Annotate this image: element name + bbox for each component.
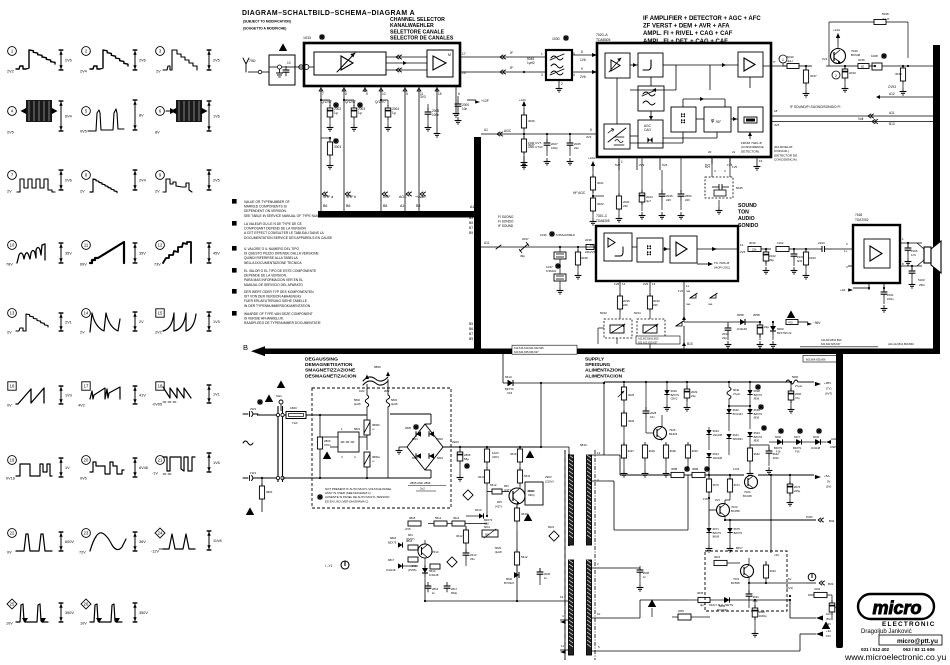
svg-text:3032: 3032 (749, 241, 756, 245)
svg-text:5800: 5800 (374, 365, 381, 369)
svg-text:1μ: 1μ (358, 111, 362, 115)
svg-text:IS VERSIE AFHANKELIJK.: IS VERSIE AFHANKELIJK. (244, 317, 284, 321)
waveform 24 test point (151, 528, 222, 553)
resistor 3036 82 (845, 58, 875, 69)
bus label 613,616,619 (512, 345, 577, 354)
svg-text:16: 16 (10, 384, 15, 389)
zener 6629 BZX79 C8V2 (664, 382, 680, 411)
warning triangle supply (648, 599, 672, 617)
svg-text:4V2: 4V2 (78, 404, 85, 408)
phase demod box (704, 107, 731, 132)
svg-text:IL VALORE O IL NUMERO DEL: IL VALORE O IL NUMERO DEL TIPO (244, 247, 299, 251)
svg-text:1: 1 (541, 52, 543, 56)
capacitor 2106 2n5 (905, 265, 915, 288)
waveform 21 test point (152, 453, 220, 476)
capacitor 2100 (791, 248, 804, 274)
svg-text:+12A: +12A (833, 28, 840, 32)
svg-text:24: 24 (158, 531, 163, 536)
svg-text:1008: 1008 (871, 54, 878, 58)
svg-text:2040: 2040 (849, 71, 856, 75)
svg-text:DEGAUSSING: DEGAUSSING (305, 357, 338, 363)
notes text block (multi-language) (232, 199, 333, 325)
svg-text:3102: 3102 (814, 587, 821, 591)
degaussing heading (305, 357, 357, 380)
svg-text:0V: 0V (7, 404, 12, 408)
svg-text:35V: 35V (139, 252, 146, 256)
waveform 10 test point (6, 241, 72, 267)
svg-text:1V6: 1V6 (614, 282, 620, 286)
svg-text:2V5: 2V5 (7, 131, 14, 135)
svg-text:35V: 35V (65, 252, 72, 256)
sound pins 14 13 (614, 281, 656, 292)
IF block bottom pins (615, 150, 763, 170)
capacitor 2000 10n (455, 96, 470, 124)
zeners 6671 6675 (706, 519, 743, 552)
svg-text:73V: 73V (154, 263, 161, 267)
warning triangle above antenna box (279, 43, 287, 52)
capacitor 2631 22n (746, 582, 760, 608)
svg-text:Dragoljub Janković: Dragoljub Janković (861, 629, 912, 635)
svg-text:B6: B6 (469, 221, 473, 225)
svg-text:2V: 2V (80, 331, 85, 335)
svg-text:220n: 220n (773, 456, 780, 460)
svg-text:13: 13 (10, 311, 15, 316)
svg-text:3625: 3625 (628, 393, 635, 397)
svg-text:(20V): (20V) (492, 455, 499, 459)
svg-text:6803: 6803 (412, 456, 418, 460)
svg-text:2M2: 2M2 (384, 389, 390, 393)
svg-text:/B36: /B36 (754, 416, 760, 420)
svg-text:(41T): (41T) (495, 505, 502, 509)
TO 7026-B HOR OSC note (697, 261, 730, 270)
svg-text:6629: 6629 (671, 389, 678, 393)
svg-text:+12F: +12F (481, 99, 489, 103)
svg-text:22h: 22h (623, 204, 628, 208)
fuse SH1 (276, 380, 285, 411)
IF SOUND wire A11 (771, 105, 934, 118)
svg-text:3818: 3818 (409, 516, 416, 520)
svg-text:6642: 6642 (733, 408, 740, 412)
svg-text:100n: 100n (887, 297, 894, 301)
svg-text:3616: 3616 (510, 452, 517, 456)
svg-text:+5A: +5A (774, 553, 779, 557)
svg-text:+5A: +5A (824, 474, 831, 478)
+95V output arrow (798, 381, 832, 396)
svg-text:1036: 1036 (540, 233, 547, 237)
diode 6641 SPZD41 (726, 433, 743, 455)
svg-text:6V4: 6V4 (65, 115, 72, 119)
supply heading (585, 357, 626, 380)
vertical +5A to RC box (771, 475, 779, 557)
svg-text:5803: 5803 (391, 398, 397, 402)
svg-text:5: 5 (406, 92, 408, 96)
svg-text:5V: 5V (788, 577, 792, 581)
svg-text:3629: 3629 (649, 449, 656, 453)
svg-text:290V: 290V (545, 475, 552, 479)
ceramic filter 1037 6.5MHz (546, 263, 566, 294)
resistor 3056 470 (786, 310, 821, 325)
svg-text:621,622,625,637: 621,622,625,637 (821, 342, 841, 346)
svg-text:1N4148: 1N4148 (713, 433, 723, 437)
waveform 8 test point (80, 170, 146, 194)
svg-text:22μ: 22μ (764, 325, 769, 329)
svg-text:(SUBJECT TO MODIFICATION): (SUBJECT TO MODIFICATION) (243, 20, 291, 24)
svg-text:623,624,635,636,637: 623,624,635,636,637 (514, 350, 539, 354)
capacitor 2046 22n (678, 157, 692, 219)
svg-text:FI SUONO: FI SUONO (498, 215, 514, 219)
svg-text:3613: 3613 (478, 475, 485, 479)
bus label 603,604,635,606 (803, 356, 839, 363)
svg-text:www.microelectronic.co.yu: www.microelectronic.co.yu (844, 652, 946, 662)
svg-text:2037: 2037 (522, 237, 529, 241)
svg-text:470n: 470n (324, 443, 331, 447)
svg-text:1N4148: 1N4148 (386, 568, 396, 572)
resistor 3100 (803, 248, 816, 279)
svg-text:3630: 3630 (692, 449, 699, 453)
svg-text:1N4148: 1N4148 (811, 446, 821, 450)
svg-text:I7: I7 (773, 60, 776, 64)
svg-text:A12: A12 (889, 92, 895, 96)
svg-text:1N4148: 1N4148 (737, 327, 747, 331)
svg-text:CONCIDENCIA): CONCIDENCIA) (774, 158, 797, 162)
right section thick bar (933, 45, 940, 352)
svg-text:6621: 6621 (548, 525, 555, 529)
svg-text:3021: 3021 (597, 181, 604, 185)
wire VHF a (320, 92, 322, 212)
startup network left (386, 516, 458, 595)
svg-text:45V: 45V (213, 252, 220, 256)
audio amp inner box (864, 239, 890, 268)
wire pin17 right joins bar (907, 65, 909, 67)
svg-text:2W1: 2W1 (250, 407, 257, 411)
svg-text:3V3: 3V3 (420, 95, 426, 99)
svg-text:B7: B7 (469, 332, 473, 336)
svg-text:2V6: 2V6 (139, 59, 146, 63)
resistor 3625 (618, 382, 635, 413)
ceramic filter 1036 5.5MHz/6MHz (540, 231, 576, 263)
svg-text:2V4: 2V4 (139, 179, 146, 183)
svg-text:ZF VERST + DEM + AVR +: ZF VERST + DEM + AVR + AFA (643, 24, 730, 30)
svg-text:B7: B7 (469, 226, 473, 230)
diode 6614 1N4148 (408, 558, 439, 584)
svg-text:9n8: 9n8 (797, 259, 802, 263)
svg-text:1V9: 1V9 (213, 320, 220, 324)
svg-text:7020–C: 7020–C (596, 214, 608, 218)
svg-text:23μ: 23μ (691, 394, 696, 398)
svg-text:11V6: 11V6 (733, 467, 740, 471)
volume pot 5034 dashed (634, 292, 665, 344)
waveform 15 test point (155, 309, 220, 335)
svg-text:IF SOUND/FI SUONO/SONIDO FI: IF SOUND/FI SUONO/SONIDO FI (790, 105, 840, 109)
relay 5801 (320, 427, 367, 459)
svg-text:2: 2 (561, 82, 563, 86)
IC 7020-C TDA8305 sound label (596, 214, 610, 223)
svg-text:6614: 6614 (429, 569, 436, 573)
svg-text:+12h: +12h (519, 98, 526, 102)
bus labels VHF/UHF/AGC (322, 192, 426, 208)
svg-text:10V: 10V (6, 622, 13, 626)
waveform 9 test point (155, 170, 220, 194)
waveform 16 test point (7, 382, 72, 408)
svg-text:6645: 6645 (813, 435, 819, 439)
svg-text:LA VALEUR OU LE N DE TYP: LA VALEUR OU LE N DE TYPE DE CE (244, 222, 303, 226)
svg-text:15: 15 (158, 311, 163, 316)
resistor 3632 (763, 553, 776, 583)
svg-text:SELETTORE CANALE: SELETTORE CANALE (390, 29, 445, 35)
svg-text:ES EN USO (VER DIAGRAMA C: ES EN USO (VER DIAGRAMA C) (325, 499, 368, 503)
svg-text:Volt: Volt (858, 117, 863, 121)
waveform 14 test point (80, 309, 144, 335)
svg-text:DEPENDE DE LA VERSION.: DEPENDE DE LA VERSION. (244, 274, 287, 278)
svg-text:-0V05: -0V05 (152, 403, 162, 407)
svg-text:CAG: CAG (644, 128, 651, 132)
capacitor 2105 1n5 (905, 242, 918, 265)
fuse 1800 T2A (257, 394, 367, 425)
limiter inner box (638, 53, 663, 77)
svg-text:100n: 100n (432, 113, 439, 117)
diode 6635 BYD33D (712, 597, 755, 612)
svg-text:ALIMENTAZIONE: ALIMENTAZIONE (585, 368, 626, 374)
svg-text:11: 11 (561, 644, 564, 648)
svg-text:5611: 5611 (484, 525, 490, 529)
capacitor 2005 100n (420, 95, 439, 131)
svg-text:2805: 2805 (405, 426, 411, 430)
svg-text:-12V: -12V (151, 550, 159, 554)
svg-text:6635: 6635 (719, 604, 726, 608)
svg-text:3: 3 (541, 73, 543, 77)
resistor 3102 (808, 587, 832, 603)
svg-text:10: 10 (10, 243, 15, 248)
svg-text:DETECTOR): DETECTOR) (741, 149, 759, 153)
svg-text:68μ: 68μ (464, 457, 469, 461)
svg-text:9: 9 (366, 92, 368, 96)
svg-text:4μ7: 4μ7 (700, 603, 705, 607)
svg-text:3100: 3100 (809, 256, 816, 260)
svg-text:IST VON DER VERSION ABHAEN: IST VON DER VERSION ABHAENGIG (244, 295, 302, 299)
svg-text:2638: 2638 (643, 571, 649, 575)
I-Y1 power label (325, 561, 349, 569)
IF block left pin 5 AGC input (586, 128, 592, 139)
svg-text:1V6: 1V6 (213, 115, 220, 119)
resistor 3037 (803, 65, 817, 97)
svg-text:22k: 22k (752, 248, 757, 252)
bus wire labels B5 B6 B7 B9 upper (469, 216, 473, 235)
svg-text:C15: C15 (507, 391, 513, 395)
svg-text:DEMAGNETISATION: DEMAGNETISATION (305, 362, 353, 368)
tuner internal wires (386, 55, 427, 72)
svg-text:5614: 5614 (435, 516, 442, 520)
svg-text:BF423: BF423 (669, 432, 678, 436)
wire AC lower (283, 477, 389, 479)
coincidence bowtie box (671, 107, 696, 132)
wire pin15 down (434, 86, 441, 137)
svg-text:IF AMPLIFIER + DETECTOR +: IF AMPLIFIER + DETECTOR + AGC + AFC (643, 16, 761, 22)
audio IC 7168 TDA7052 label (855, 213, 869, 222)
svg-text:4V4: 4V4 (774, 123, 780, 127)
svg-text:5612: 5612 (521, 555, 528, 559)
svg-text:B8: B8 (383, 204, 387, 208)
wire +Vvari (418, 92, 420, 212)
waveform 22 test point (7, 529, 74, 555)
AGC inner box (638, 120, 663, 148)
svg-text:6613: 6613 (505, 375, 512, 379)
aux components left of transformer low (495, 525, 559, 601)
svg-text:2058: 2058 (753, 313, 760, 317)
svg-text:WAARDE OF TYPE VAN DEZE C: WAARDE OF TYPE VAN DEZE COMPONENT (244, 312, 313, 316)
svg-text:6804: 6804 (437, 456, 443, 460)
IF amplifier heading (643, 16, 761, 45)
svg-text:3022: 3022 (597, 202, 604, 206)
svg-text:6: 6 (458, 92, 460, 96)
speaker 5100 (917, 241, 941, 287)
svg-text:7614: 7614 (432, 550, 439, 554)
resistor 3612 (456, 526, 469, 546)
svg-text:6671: 6671 (713, 527, 720, 531)
svg-text:1n: 1n (544, 576, 548, 580)
capacitor 2629 23u (684, 382, 698, 411)
svg-text:6816: 6816 (390, 536, 397, 540)
bus label A11,A12,B13,B16,B40 (888, 342, 914, 346)
svg-text:3027: 3027 (528, 143, 535, 147)
svg-text:B10: B10 (687, 342, 693, 346)
svg-text:2n2: 2n2 (420, 487, 425, 491)
svg-text:12: 12 (158, 243, 163, 248)
svg-text:TDA8305: TDA8305 (596, 219, 610, 223)
capacitor 2628 10n (643, 382, 657, 433)
svg-text:nas: nas (686, 290, 691, 293)
capacitor 2674 225u (787, 474, 801, 506)
svg-text:A1: A1 (470, 205, 474, 209)
capacitor 2004 1u (375, 99, 399, 131)
svg-text:B9: B9 (469, 231, 473, 235)
svg-text:AUDIO: AUDIO (738, 216, 755, 222)
bus A horizontal thick bar (318, 205, 480, 218)
svg-text:2V1: 2V1 (65, 321, 72, 325)
bus vertical thick bar (474, 137, 481, 354)
svg-text:BYG33J: BYG33J (733, 412, 744, 416)
waveform 5 test point (80, 100, 144, 134)
A11 sound input wire (481, 215, 596, 249)
capacitor 2027 100p (544, 133, 558, 165)
svg-text:SUPPLY: SUPPLY (585, 357, 605, 363)
svg-text:11V8: 11V8 (213, 539, 222, 543)
wire UHF (380, 92, 382, 212)
diode 6644 1N4148 (706, 452, 722, 475)
svg-text:RAADPLEEG DE TYPENUMMER DOC: RAADPLEEG DE TYPENUMMER DOCUMENTATIE (244, 321, 322, 325)
svg-text:−0V5: −0V5 (404, 527, 411, 531)
CV93 label (880, 85, 896, 97)
svg-text:A11: A11 (484, 241, 490, 245)
svg-text:BZX79: BZX79 (754, 435, 763, 439)
waveform 13 test point (7, 309, 72, 335)
svg-text:3688: 3688 (671, 467, 678, 471)
svg-text:15: 15 (438, 92, 442, 96)
transistor 7040 BC548 (831, 49, 861, 65)
svg-text:1030: 1030 (552, 37, 560, 41)
chopper transistor 7610 (495, 488, 534, 509)
capacitor 2660 47u (788, 382, 802, 413)
svg-text:2V6: 2V6 (580, 75, 586, 79)
+5A rail (620, 467, 831, 489)
supply rail 382 (604, 381, 792, 383)
svg-text:8: 8 (581, 50, 583, 54)
svg-text:7168: 7168 (855, 213, 862, 217)
svg-text:470: 470 (788, 321, 793, 325)
capacitor 2806 68u (457, 446, 471, 481)
svg-text:69V: 69V (80, 263, 87, 267)
svg-text:BC558: BC558 (731, 581, 740, 585)
inductor 5660 27uH (786, 375, 802, 388)
svg-text:AGC: AGC (504, 129, 512, 133)
waveform 20 test point (80, 456, 148, 481)
svg-text:3003: 3003 (334, 145, 341, 149)
svg-text:3670: 3670 (713, 483, 720, 487)
svg-text:3671: 3671 (734, 483, 741, 487)
svg-text:4μ7: 4μ7 (646, 199, 651, 203)
svg-text:B6: B6 (346, 204, 350, 208)
secondary wires (608, 455, 832, 651)
PTC 3800a (364, 452, 380, 479)
svg-text:CV93: CV93 (888, 85, 896, 89)
svg-text:2V4: 2V4 (80, 70, 87, 74)
svg-text:BZX79: BZX79 (734, 531, 743, 535)
svg-text:(0V65): (0V65) (408, 568, 416, 572)
svg-text:6675: 6675 (734, 527, 741, 531)
sound amp-limiter inner box (604, 233, 632, 261)
svg-text:0V5: 0V5 (80, 130, 87, 134)
svg-text:3635: 3635 (697, 591, 704, 595)
svg-text:B5: B5 (469, 322, 473, 326)
svg-text:B5: B5 (469, 216, 473, 220)
title DIAGRAM-SCHALTBILD-SCHEMA-DIAGRAM A (242, 10, 415, 31)
svg-text:ELECTRONIC: ELECTRONIC (882, 621, 936, 628)
svg-text:22h: 22h (653, 303, 658, 307)
svg-text:B13: B13 (889, 122, 895, 126)
svg-text:1V5: 1V5 (732, 165, 738, 169)
snubber right of transistor: diode 6620 (516, 544, 518, 546)
svg-text:FUER ERLAEUTERUNG SIEHE TAB: FUER ERLAEUTERUNG SIEHE TABELLE (244, 299, 308, 303)
svg-text:5033: 5033 (600, 311, 607, 315)
waveform 25 test point (6, 599, 74, 625)
svg-text:22h: 22h (685, 198, 690, 202)
svg-text:1V1: 1V1 (213, 393, 220, 397)
svg-text:BZX79: BZX79 (388, 541, 397, 545)
resistor 3621 1k2 (708, 555, 740, 566)
svg-text:3627: 3627 (628, 449, 635, 453)
feedback diode 6610 BZX79 C10 (470, 508, 517, 526)
crystal 5045 dashed box (705, 157, 743, 214)
svg-text:A11: A11 (889, 111, 895, 115)
svg-text:BYD33J: BYD33J (504, 581, 515, 585)
resistor 3616 (510, 446, 534, 470)
svg-text:78V: 78V (6, 263, 13, 267)
svg-text:BZX79: BZX79 (774, 446, 782, 450)
svg-text:SMAGNETIZZAZIONE: SMAGNETIZZAZIONE (305, 368, 356, 374)
svg-text:F16: F16 (795, 450, 800, 454)
svg-text:(HOR OSC): (HOR OSC) (714, 266, 730, 270)
svg-text:36V: 36V (139, 540, 146, 544)
waveform 2 test point (80, 47, 146, 74)
svg-text:CNP: CNP (830, 445, 836, 449)
svg-text:2V2: 2V2 (7, 70, 14, 74)
svg-text:BC548: BC548 (851, 53, 861, 57)
inductor 5046 (527, 57, 535, 65)
svg-text:90°: 90° (716, 120, 722, 124)
waveform 19 test point (6, 456, 70, 481)
B33 output (749, 573, 834, 590)
wire antenna to tuner (295, 65, 304, 69)
svg-text:(SOGGETTO A MODIFICHE): (SOGGETTO A MODIFICHE) (243, 27, 286, 31)
